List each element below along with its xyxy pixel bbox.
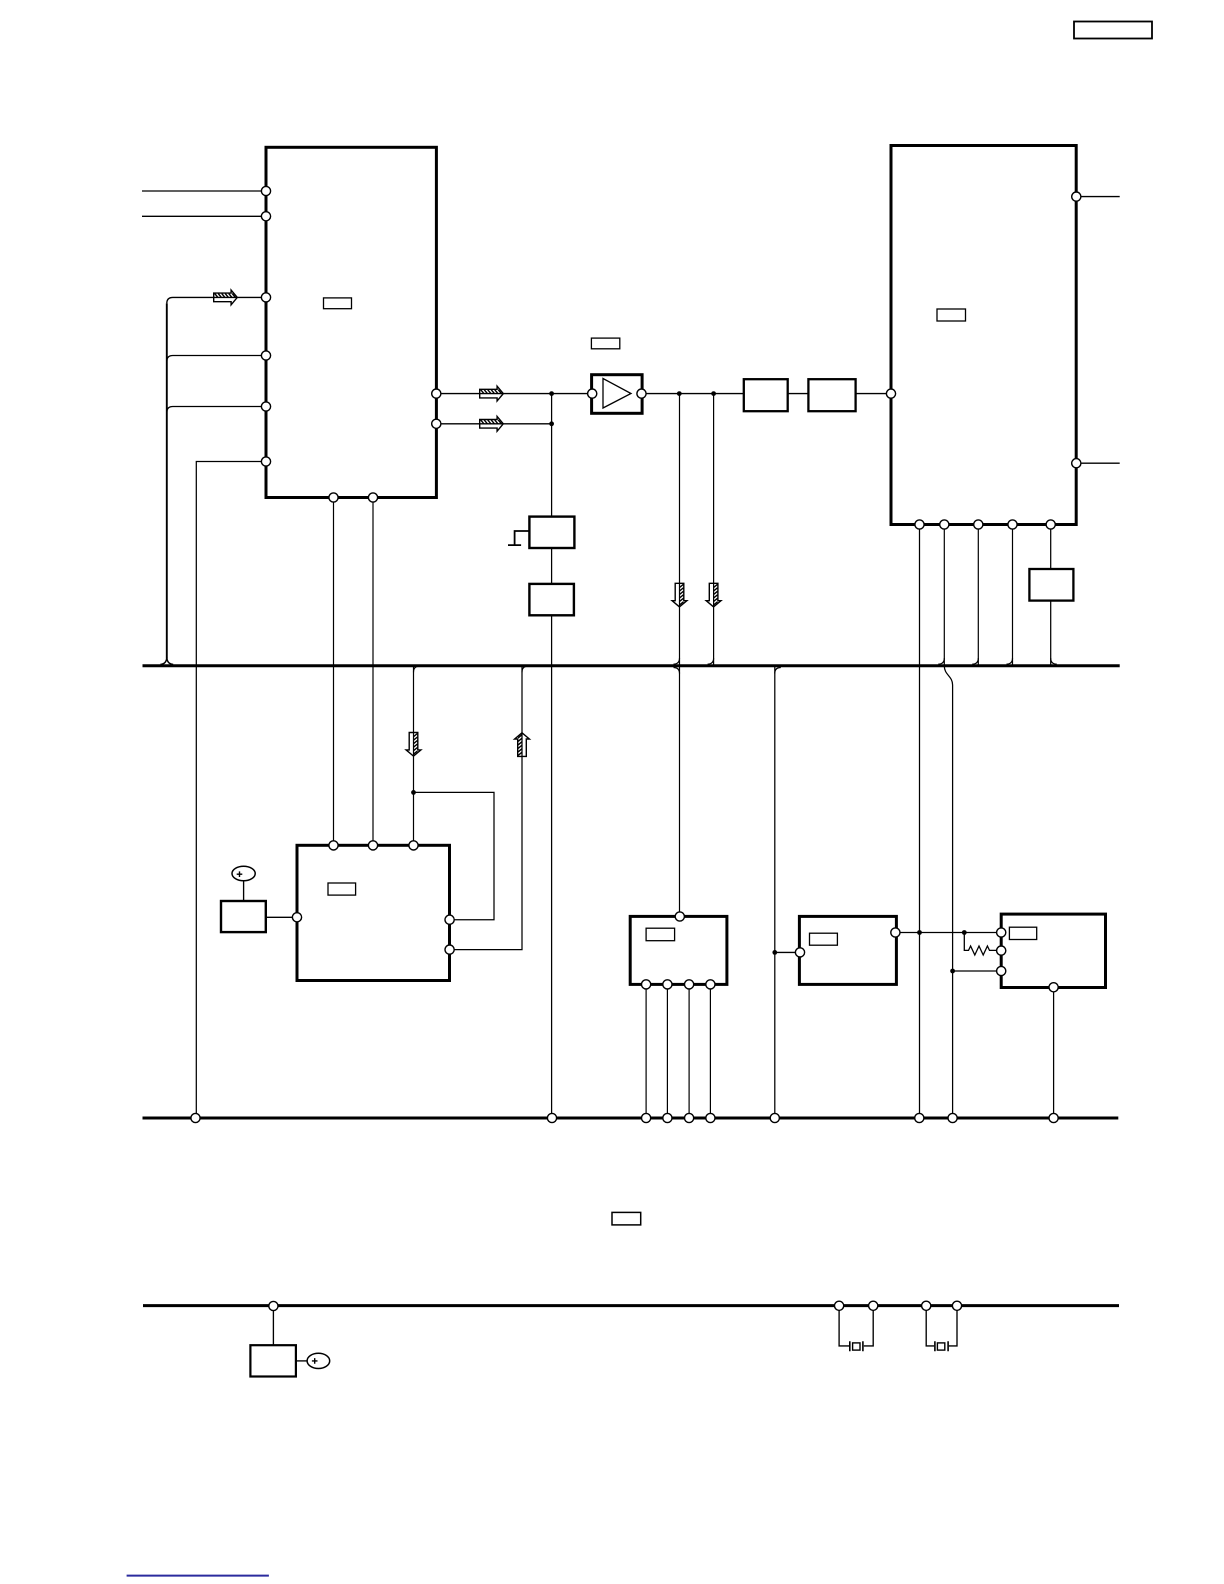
wire U5 bottom pin2 to bus GND [666, 984, 668, 1113]
node bus AUX tap 1 [269, 1301, 278, 1310]
wire node C down to U5 top pin [679, 394, 681, 912]
wire IN1 to U1 pin1 [142, 190, 262, 192]
wire U1 out2 [441, 423, 552, 425]
pin U4.t1 [329, 841, 338, 850]
pin U4.t2 [368, 841, 377, 850]
bus AUX (lower horizontal bus) [143, 1304, 1119, 1307]
wire node A down through S1 S2 to bus GND [551, 394, 553, 1114]
node bus GND tap 6 [706, 1113, 715, 1122]
node bus GND tap 10 [1049, 1113, 1058, 1122]
crystal X2 [935, 1341, 948, 1351]
label frame (bottom center) [612, 1212, 641, 1225]
pin U5.b1 [642, 980, 651, 989]
wire node E to U4 right pin1 [414, 792, 495, 919]
node bus GND tap 2 [547, 1113, 556, 1122]
wire U2 right pin2 out [1081, 462, 1120, 464]
wire node F to U6 left pin [775, 951, 796, 953]
battery block B1 (bottom-left) [250, 1345, 296, 1376]
battery BT2 (+ ellipse) [232, 866, 255, 881]
IC U5 [630, 916, 727, 984]
bus VCC (upper horizontal bus) [143, 664, 1120, 667]
pin U1.6 [261, 457, 270, 466]
pin U6.left [795, 948, 804, 957]
wire B1 to BT1 [296, 1360, 307, 1362]
node G junction dot [917, 930, 922, 935]
wire U5 bottom pin4 to bus GND [709, 984, 711, 1113]
filter FL2 [808, 379, 855, 411]
signal arrow into U1 pin3 [214, 290, 238, 305]
regulator S2 [529, 584, 574, 615]
node I junction dot [950, 969, 955, 974]
pin U5.b3 [685, 980, 694, 989]
wire U2 bottom pin3 to bus VCC [977, 525, 979, 665]
pin U3.out [637, 389, 646, 398]
node bus AUX tap 2 [835, 1301, 844, 1310]
node C junction dot [677, 391, 682, 396]
label U1 [324, 298, 352, 309]
node B junction dot [549, 421, 554, 426]
node E junction dot [411, 790, 416, 795]
fillet at bus VCC [775, 668, 781, 674]
node D junction dot [711, 391, 716, 396]
fillet at bus VCC [414, 666, 420, 672]
pin U4.left [292, 913, 301, 922]
hyperlink rule (bottom-left, blue) [127, 1575, 269, 1577]
wire trunk to U1 pin4 [167, 356, 262, 362]
ground stub of S1 [508, 531, 529, 545]
wire U5 bottom pin3 to bus GND [688, 984, 690, 1113]
wire U2 bottom pin2 to bus VCC [943, 525, 945, 665]
resistor R1 branch [964, 933, 996, 956]
pin U1.9 (right out1) [432, 389, 441, 398]
wire U1 bottom pin1 to U4 top pin1 [333, 498, 335, 846]
wire U2 bottom pin1 to bus GND [919, 525, 921, 1114]
fillet at bus VCC [522, 666, 528, 672]
arrow down to U4 [406, 733, 421, 757]
pin U1.4 [261, 351, 270, 360]
wire bus VCC shift down to bus GND [944, 666, 952, 1114]
label U7 [1009, 927, 1036, 939]
label U3 [591, 338, 619, 349]
signal arrow out2 [480, 416, 504, 431]
IC U4 (middle block) [297, 845, 450, 980]
crystal X1 [850, 1341, 863, 1351]
fillet node D wire at bus VCC [708, 658, 714, 664]
IC U1 (top-left block) [266, 147, 436, 497]
filter FL1 [744, 379, 788, 411]
crystal X2 leads [926, 1306, 957, 1346]
battery BT1 (+ ellipse) [307, 1353, 330, 1368]
regulator S1 [529, 517, 574, 548]
crystal X1 leads [839, 1306, 873, 1346]
wire bus VCC down to U4 top pin3 [413, 666, 415, 841]
pin U4.r1 [445, 915, 454, 924]
fillets node C wire at bus VCC [674, 658, 680, 673]
pin U7.2 [997, 946, 1006, 955]
wire trunk to U1 pin5 [167, 407, 262, 413]
wire U1 pin6 down to bus GND [196, 462, 261, 1114]
pin U2.b4 [1008, 520, 1017, 529]
wire U2 bottom pin5 through C1 to bus VCC [1050, 525, 1052, 570]
wire U7 bottom pin to bus GND [1053, 988, 1055, 1114]
node bus GND tap 7 [770, 1113, 779, 1122]
wire B2 to U4 [266, 916, 293, 918]
pin U7.3 [997, 966, 1006, 975]
pin U1.7 (bottom) [329, 493, 338, 502]
wire U2 bottom pin4 to bus VCC [1012, 525, 1014, 665]
node bus GND tap 4 [663, 1113, 672, 1122]
pin U2.in [886, 389, 895, 398]
arrow up on U4 pin2 wire [515, 733, 530, 757]
wire BT2 to B2 [243, 881, 245, 901]
wire U5 bottom pin1 to bus GND [645, 984, 647, 1113]
wire trunk to U1 pin3 [167, 297, 262, 303]
arrow down on node D wire [706, 583, 721, 607]
IC U7 [1001, 914, 1105, 987]
pin U2.b5 [1046, 520, 1055, 529]
node bus GND tap 8 [915, 1113, 924, 1122]
pin U5.b2 [663, 980, 672, 989]
title block frame (top-right) [1074, 22, 1152, 39]
wire bus AUX to B1 [272, 1306, 274, 1345]
pin U1.3 [261, 293, 270, 302]
node bus AUX tap 4 [922, 1301, 931, 1310]
node A junction dot [549, 391, 554, 396]
pin U2.out2 [1072, 459, 1081, 468]
wire U4 right pin2 up to bus VCC [454, 666, 522, 950]
fillet at bus VCC [938, 658, 944, 664]
label U2 [937, 309, 966, 321]
label U4 [328, 883, 356, 895]
pin U7.1 [997, 928, 1006, 937]
pin U5.top [675, 912, 684, 921]
node bus GND tap 9 [948, 1113, 957, 1122]
bus GND (middle horizontal bus) [143, 1117, 1119, 1120]
IC U6 [799, 916, 896, 984]
node H junction dot [962, 930, 967, 935]
pin U1.2 [261, 212, 270, 221]
pin U4.r2 [445, 945, 454, 954]
node bus GND tap 5 [685, 1113, 694, 1122]
buffer U3 triangle [603, 379, 631, 409]
pin U5.b4 [706, 980, 715, 989]
wire U1 bottom pin2 to U4 top pin2 [372, 498, 374, 846]
node bus AUX tap 5 [952, 1301, 961, 1310]
pin U1.10 (right out2) [432, 419, 441, 428]
pin U2.out1 [1072, 192, 1081, 201]
wire U7 pin3 to node I [953, 970, 997, 972]
pin U2.b3 [974, 520, 983, 529]
pin U2.b1 [915, 520, 924, 529]
pin U3.in [588, 389, 597, 398]
wire U1 out1 to buffer U3 [441, 393, 588, 395]
fillet at bus VCC [1007, 658, 1013, 664]
wire U2 right pin1 out [1081, 196, 1120, 198]
node bus AUX tap 3 [869, 1301, 878, 1310]
pin U1.8 (bottom) [368, 493, 377, 502]
fillet at bus VCC [1051, 658, 1057, 664]
wire U6 right pin to U7 pin1 [900, 932, 997, 934]
pin U1.1 [261, 186, 270, 195]
sensor block B2 (left of U4) [221, 901, 266, 932]
pin U1.5 [261, 402, 270, 411]
wire harness trunk (left) [166, 303, 168, 658]
trunk foot flare at bus VCC [160, 658, 173, 665]
IC U2 (top-right block) [891, 146, 1076, 525]
node bus GND tap 3 [642, 1113, 651, 1122]
wire node D down to bus VCC [713, 394, 715, 665]
node bus GND tap 1 [191, 1113, 200, 1122]
fillet at bus VCC [972, 658, 978, 664]
pin U2.b2 [940, 520, 949, 529]
capacitor block C1 (under U2) [1029, 569, 1073, 601]
wire U3 output to U2 input via FL1 FL2 [646, 393, 744, 395]
signal arrow out1 [480, 386, 504, 401]
buffer U3 (amplifier box) [592, 375, 643, 414]
label U6 [810, 933, 838, 945]
wire IN2 to U1 pin2 [142, 215, 262, 217]
pin U6.right [891, 928, 900, 937]
pin U7.bottom [1049, 983, 1058, 992]
label U5 [646, 928, 675, 941]
wire bus VCC down to U6 and bus GND [774, 666, 776, 1114]
arrow down on node C wire [672, 583, 687, 607]
node F junction dot [772, 950, 777, 955]
pin U4.t3 [409, 841, 418, 850]
